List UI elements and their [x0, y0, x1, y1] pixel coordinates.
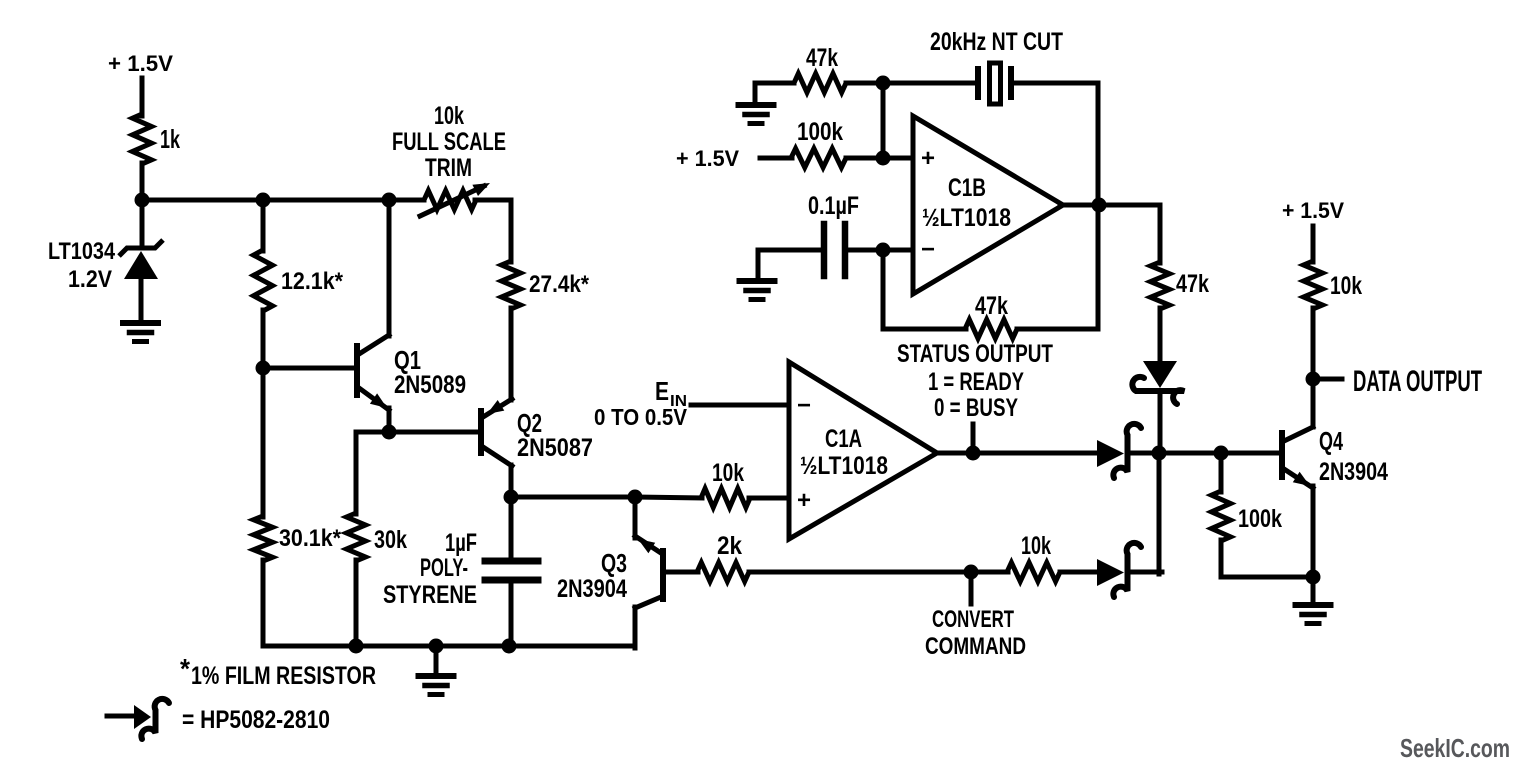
svg-text:47k: 47k [1176, 270, 1209, 298]
transistor Q1 2N5089 [357, 335, 466, 410]
wire 0.1uF to C1B - input [845, 248, 913, 253]
comparator C1A 1/2LT1018 [789, 362, 937, 539]
svg-text:20kHz NT CUT: 20kHz NT CUT [930, 28, 1063, 56]
junction Q1 collector branch [382, 193, 397, 208]
svg-text:100k: 100k [797, 118, 843, 146]
wire 2k to CONVERT node [749, 570, 1008, 575]
+1.5V supply label (C1B) [676, 146, 739, 171]
svg-text:C1A: C1A [825, 425, 862, 453]
wire Q1 collector to V+ rail [387, 200, 392, 336]
resistor 10k (data pull-up) [1304, 261, 1363, 309]
wire D2 to node D [1131, 451, 1162, 456]
resistor 30k [347, 513, 408, 561]
svg-text:+: + [797, 487, 811, 514]
svg-text:FULL SCALE: FULL SCALE [392, 128, 506, 156]
resistor 10k (convert command) [1007, 532, 1060, 582]
wire +1.5V to 1k [140, 78, 145, 116]
svg-text:12.1k*: 12.1k* [281, 268, 344, 295]
svg-text:30.1k*: 30.1k* [279, 525, 342, 552]
wire V+ to LT1034 cathode [140, 200, 145, 248]
svg-text:1µF: 1µF [445, 529, 477, 557]
junction 30k at ground bus [349, 639, 364, 654]
E_IN input label [594, 376, 688, 430]
svg-text:1 = READY: 1 = READY [928, 368, 1024, 396]
svg-text:DATA OUTPUT: DATA OUTPUT [1353, 365, 1482, 398]
svg-text:0 = BUSY: 0 = BUSY [934, 394, 1018, 422]
svg-text:Q4: Q4 [1319, 426, 1343, 456]
ground (main bus) [419, 646, 454, 695]
crystal 20kHz NT CUT [930, 28, 1063, 104]
capacitor 1uF polystyrene [383, 497, 538, 646]
node C junction (Q3 emitter) [628, 490, 643, 505]
wire Q3 base to 2k [664, 570, 698, 575]
ground (0.1uF) [740, 281, 775, 300]
svg-text:2N5089: 2N5089 [394, 371, 466, 399]
svg-text:½LT1018: ½LT1018 [922, 204, 1011, 232]
wire 27.4k to Q2 emitter [509, 308, 514, 400]
transistor Q3 2N3904 [557, 497, 663, 608]
wire node D to node E [1159, 451, 1221, 456]
capacitor 0.1uF [808, 192, 859, 276]
wire C1B - to feedback 47k [883, 250, 966, 329]
node E junction [1214, 446, 1229, 461]
resistor 30.1k [254, 516, 342, 561]
node V+ junction [135, 193, 150, 208]
wire 10k to diode D3 [1060, 570, 1099, 575]
resistor 1k [133, 114, 181, 164]
svg-text:½LT1018: ½LT1018 [800, 452, 888, 480]
resistor 100k (Q4 base) [1212, 491, 1283, 541]
wire D3 to pull-down rail [1131, 570, 1162, 575]
svg-text:Q3: Q3 [601, 548, 627, 578]
svg-text:2N5087: 2N5087 [517, 434, 593, 462]
wire Q2 collector to node B [509, 465, 514, 497]
svg-text:0.1µF: 0.1µF [808, 192, 859, 220]
svg-text:*: * [180, 653, 190, 684]
wire 100k to Q4 emitter rail [1221, 540, 1313, 577]
wire D1 to node D [1158, 396, 1163, 456]
resistor 10k (C1A + input) [701, 459, 750, 508]
svg-text:TRIM: TRIM [425, 154, 472, 182]
junction 1uF at ground bus [502, 639, 517, 654]
wire Q1 emitter to node A [387, 408, 392, 432]
wire 30.1k to ground bus [261, 560, 266, 646]
wire 47k to ground (top left) [755, 83, 794, 104]
wire V+ rail to trim pot [142, 198, 424, 203]
resistor 47k (C1B feedback) [965, 292, 1017, 339]
wire node A to Q2 base [389, 430, 480, 435]
diode D1 HP5082-2810 (vertical) [1132, 361, 1184, 404]
svg-text:E: E [655, 376, 669, 406]
svg-text:CONVERT: CONVERT [932, 606, 1014, 633]
junction 12.1k branch [256, 193, 271, 208]
comparator C1B 1/2LT1018 [913, 116, 1063, 294]
resistor 47k (pull-up) [1151, 262, 1210, 309]
svg-text:2N3904: 2N3904 [557, 575, 627, 603]
svg-text:2k: 2k [717, 532, 742, 560]
potentiometer 10k FULL SCALE TRIM [392, 102, 506, 216]
wire Q4 emitter to ground node [1311, 486, 1316, 577]
svg-text:47k: 47k [806, 44, 838, 72]
svg-text:LT1034: LT1034 [48, 238, 116, 265]
resistor 2k [697, 532, 749, 582]
transistor Q2 2N5087 [481, 399, 593, 466]
svg-text:27.4k*: 27.4k* [529, 271, 590, 298]
wire C1A output to D2 [935, 451, 1098, 456]
junction C1B - input [876, 243, 891, 258]
ground (top left 47k) [739, 105, 774, 124]
wire node B to node C [511, 495, 635, 500]
svg-text:1% FILM RESISTOR: 1% FILM RESISTOR [191, 662, 376, 690]
wire 30k to ground bus [354, 560, 359, 646]
svg-text:30k: 30k [374, 526, 407, 554]
node STATUS junction [966, 446, 981, 461]
node Q1 base junction [256, 361, 271, 376]
wire 1k to V+ node [140, 163, 145, 200]
wire Q3 collector to ground bus [633, 607, 638, 648]
wire 12.1k to Q1 base node [261, 310, 266, 368]
transistor Q4 2N3904 [1282, 426, 1388, 488]
CONVERT COMMAND stub and label [925, 572, 1026, 660]
svg-text:1k: 1k [160, 124, 180, 154]
wire top rail to crystal [846, 81, 977, 86]
svg-text:+: + [921, 145, 935, 172]
svg-text:POLY-: POLY- [420, 554, 468, 582]
svg-text:0 TO 0.5V: 0 TO 0.5V [594, 404, 688, 430]
wire base node to Q1 base [263, 366, 356, 371]
ground (LT1034) [123, 323, 158, 342]
wire 47k pull-up to D1 [1158, 308, 1163, 362]
svg-text:−: − [921, 236, 935, 263]
wire LT1034 anode to ground [139, 279, 144, 322]
wire feedback 47k to output rail [1017, 206, 1098, 329]
svg-text:−: − [797, 392, 811, 419]
svg-text:10k: 10k [712, 459, 744, 487]
wire 10k to C1A + input [749, 496, 789, 501]
legend diode HP5082-2810 [107, 699, 330, 739]
diode D2 HP5082-2810 (C1A output) [1097, 424, 1141, 478]
svg-text:+ 1.5V: + 1.5V [1282, 198, 1344, 223]
node A junction (Q1 emitter / Q2 base) [382, 425, 397, 440]
wire base node to 30.1k [261, 368, 266, 517]
node C1B output junction [1092, 198, 1107, 213]
junction C1B + input [876, 151, 891, 166]
svg-text:2N3904: 2N3904 [1319, 458, 1388, 486]
STATUS stub [971, 424, 976, 453]
svg-text:10k: 10k [1021, 532, 1051, 560]
wire 0.1uF to ground [758, 250, 824, 280]
wire node C to 10k [635, 497, 702, 498]
wire node E to 100k [1219, 453, 1224, 492]
wire Q4 collector to DATA node [1311, 379, 1316, 427]
node DATA OUTPUT junction [1306, 372, 1321, 387]
node CONVERT junction [964, 565, 979, 580]
svg-text:100k: 100k [1238, 505, 1282, 533]
node B junction (Q2 collector) [504, 490, 519, 505]
wire C1B output to 47k pull-up [1060, 205, 1160, 263]
svg-text:+ 1.5V: + 1.5V [676, 146, 739, 171]
svg-text:STYRENE: STYRENE [383, 581, 477, 609]
ground bus wire (bottom) [263, 644, 635, 649]
diode D3 HP5082-2810 (convert) [1097, 543, 1141, 597]
+1.5V supply label (right) [1282, 198, 1344, 223]
wire +1.5V to 100k [760, 156, 792, 161]
resistor 47k (C1B + bias) [794, 44, 846, 93]
wire E_IN to C1A - input [691, 403, 789, 408]
resistor 27.4k [502, 261, 590, 309]
wire node E to Q4 base [1221, 451, 1282, 456]
svg-text:10k: 10k [434, 102, 464, 130]
+1.5V supply label (left) [108, 51, 173, 76]
junction top rail [876, 76, 891, 91]
svg-text:C1B: C1B [948, 174, 986, 202]
node Q4 emitter junction [1306, 570, 1321, 585]
DATA OUTPUT stub and label [1313, 365, 1482, 398]
note 1% film resistor [180, 653, 376, 690]
zener diode LT1034 1.2V [48, 238, 163, 293]
svg-text:STATUS OUTPUT: STATUS OUTPUT [897, 340, 1053, 368]
wire node D to pull-down diode [1157, 453, 1162, 574]
wire V+ to 12.1k [261, 200, 266, 251]
wire trim pot to 27.4k [475, 200, 511, 262]
resistor 12.1k [254, 250, 344, 311]
STATUS OUTPUT label [897, 340, 1053, 422]
resistor 100k (C1B +) [791, 118, 846, 168]
svg-text:SeekIC.com: SeekIC.com [1400, 733, 1510, 763]
wire +1.5V to 10k [1311, 226, 1316, 262]
svg-text:10k: 10k [1330, 272, 1362, 300]
wire 100k to C1B + input [846, 156, 913, 161]
junction ground stub at bus [429, 639, 444, 654]
watermark SeekIC.com [1400, 733, 1510, 763]
svg-text:+ 1.5V: + 1.5V [108, 51, 173, 76]
svg-text:1.2V: 1.2V [68, 266, 112, 293]
wire node A to 30k [356, 432, 389, 514]
wire 10k to DATA node [1311, 308, 1316, 379]
wire crystal to C1B output rail [1011, 83, 1098, 206]
node D junction [1152, 446, 1167, 461]
ground (Q4) [1296, 577, 1331, 624]
svg-text:47k: 47k [975, 292, 1008, 320]
svg-text:COMMAND: COMMAND [925, 633, 1026, 660]
wire C1B + node to top rail [881, 83, 886, 158]
svg-text:= HP5082-2810: = HP5082-2810 [182, 706, 330, 734]
